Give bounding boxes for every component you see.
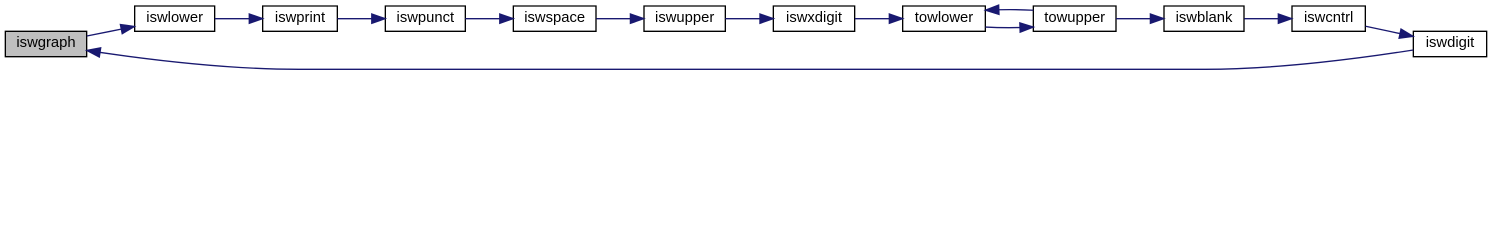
- edge iswgraph to iswlower (wire + arrowhead): [87, 25, 135, 37]
- edge iswcntrl to iswdigit (wire + arrowhead): [1366, 26, 1413, 38]
- node iswspace: [513, 6, 596, 31]
- svg-text:towupper: towupper: [1044, 10, 1105, 26]
- node iswblank: [1164, 6, 1244, 31]
- edge towupper to iswblank (wire + arrowhead): [1116, 14, 1164, 23]
- svg-text:iswupper: iswupper: [655, 10, 714, 26]
- node iswdigit: [1413, 31, 1486, 56]
- edge towlower to towupper (wire + arrowhead): [985, 23, 1033, 32]
- node iswupper: [644, 6, 725, 31]
- svg-text:iswcntrl: iswcntrl: [1304, 10, 1353, 26]
- edge iswprint to iswpunct (wire + arrowhead): [337, 14, 385, 23]
- node iswprint: [263, 6, 338, 31]
- svg-text:iswgraph: iswgraph: [16, 35, 75, 51]
- edge iswblank to iswcntrl (wire + arrowhead): [1244, 14, 1291, 23]
- edge iswpunct to iswspace (wire + arrowhead): [465, 14, 513, 23]
- svg-text:iswblank: iswblank: [1176, 10, 1233, 26]
- edge iswxdigit to towlower (wire + arrowhead): [855, 14, 903, 23]
- svg-text:iswlower: iswlower: [146, 10, 203, 26]
- svg-text:iswpunct: iswpunct: [397, 10, 455, 26]
- edge iswupper to iswxdigit (wire + arrowhead): [725, 14, 773, 23]
- svg-text:iswxdigit: iswxdigit: [786, 10, 842, 26]
- edge iswlower to iswprint (wire + arrowhead): [215, 14, 263, 23]
- svg-text:iswspace: iswspace: [524, 10, 585, 26]
- node iswlower: [135, 6, 215, 31]
- node towupper: [1033, 6, 1116, 31]
- node towlower: [903, 6, 986, 31]
- svg-text:iswdigit: iswdigit: [1426, 35, 1475, 51]
- svg-text:iswprint: iswprint: [275, 10, 325, 26]
- edge iswspace to iswupper (wire + arrowhead): [596, 14, 643, 23]
- node iswxdigit: [773, 6, 854, 31]
- edge towupper to towlower (wire + arrowhead): [985, 5, 1033, 14]
- node iswgraph: [5, 31, 86, 56]
- edge iswdigit to iswgraph (wire + arrowhead): [87, 48, 1413, 70]
- node iswpunct: [385, 6, 465, 31]
- svg-text:towlower: towlower: [915, 10, 973, 26]
- node iswcntrl: [1292, 6, 1365, 31]
